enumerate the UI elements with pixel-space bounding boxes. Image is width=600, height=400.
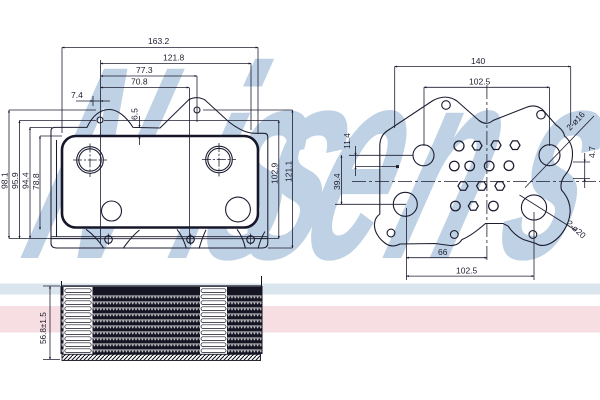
svg-text:6.5: 6.5 — [130, 108, 140, 120]
svg-text:102.5: 102.5 — [469, 77, 491, 87]
svg-text:94.4: 94.4 — [21, 172, 31, 189]
svg-text:78.8: 78.8 — [31, 173, 41, 190]
svg-text:95.9: 95.9 — [10, 172, 20, 189]
svg-text:98.1: 98.1 — [0, 172, 10, 189]
svg-text:39.4: 39.4 — [332, 173, 342, 190]
svg-text:77.3: 77.3 — [136, 65, 153, 75]
svg-text:70.8: 70.8 — [131, 77, 148, 87]
svg-text:140: 140 — [471, 56, 485, 66]
svg-text:11.4: 11.4 — [342, 133, 352, 149]
svg-text:102.5: 102.5 — [456, 266, 478, 276]
svg-text:121.1: 121.1 — [284, 160, 294, 182]
svg-text:163.2: 163.2 — [148, 36, 170, 46]
svg-text:7.4: 7.4 — [71, 90, 83, 100]
svg-text:56.8±1.5: 56.8±1.5 — [39, 312, 48, 344]
svg-text:66: 66 — [438, 247, 448, 257]
svg-text:4.7: 4.7 — [587, 146, 597, 158]
svg-text:121.8: 121.8 — [163, 53, 185, 63]
svg-text:102.9: 102.9 — [270, 162, 280, 184]
